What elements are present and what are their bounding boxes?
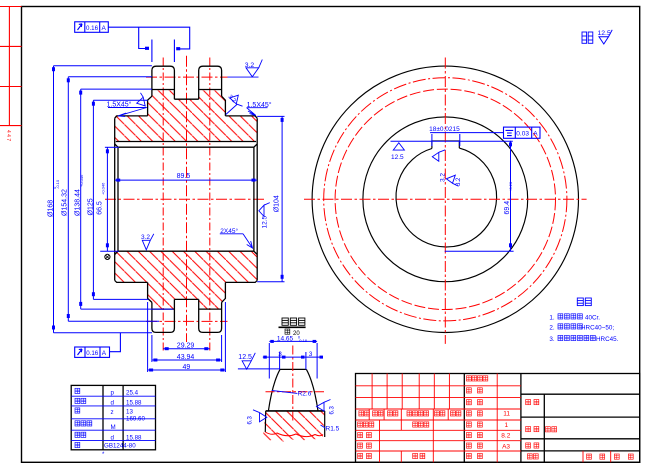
svg-text:8.2: 8.2 (501, 432, 510, 439)
svg-text:-0.18: -0.18 (298, 338, 308, 343)
svg-text:43.94: 43.94 (177, 354, 195, 361)
svg-text:3: 3 (309, 351, 313, 358)
svg-text:11: 11 (503, 411, 510, 418)
svg-text:169.60: 169.60 (126, 416, 145, 423)
svg-text:40Cr.: 40Cr. (585, 314, 600, 321)
svg-text:3.2: 3.2 (141, 234, 150, 241)
svg-text:A: A (533, 131, 538, 138)
svg-text:-0.10: -0.10 (55, 179, 60, 189)
svg-text:25.4: 25.4 (126, 389, 139, 396)
svg-text:A3: A3 (502, 443, 510, 450)
svg-text:0.16: 0.16 (86, 350, 99, 357)
svg-text:12.5: 12.5 (262, 215, 269, 228)
svg-text:d: d (111, 435, 115, 442)
svg-text:66.5: 66.5 (97, 201, 104, 215)
svg-text:14.65: 14.65 (277, 335, 294, 342)
svg-text:15.88: 15.88 (126, 435, 142, 442)
svg-text:Ø154.32: Ø154.32 (62, 189, 69, 216)
svg-text:A: A (102, 25, 107, 32)
svg-text:d: d (111, 400, 115, 407)
svg-text:Ø125: Ø125 (88, 198, 95, 215)
svg-text:3.: 3. (549, 336, 555, 343)
svg-text:1: 1 (505, 422, 509, 429)
svg-text:0.03: 0.03 (516, 131, 529, 138)
svg-text:R2.6: R2.6 (298, 390, 312, 397)
svg-text:13: 13 (126, 409, 133, 416)
svg-text:6.3: 6.3 (248, 415, 254, 424)
svg-text:15.88: 15.88 (126, 400, 142, 407)
svg-text:18±0.0215: 18±0.0215 (429, 126, 460, 133)
svg-text:GB1244-80: GB1244-80 (104, 443, 136, 450)
svg-text:89.5: 89.5 (177, 173, 191, 180)
svg-text:R1.5: R1.5 (326, 425, 340, 432)
svg-text:3: 3 (278, 351, 282, 358)
svg-text:12.5: 12.5 (391, 154, 404, 161)
svg-text:2.: 2. (549, 324, 555, 331)
svg-text:M: M (111, 424, 116, 431)
svg-text:Ø138.44: Ø138.44 (75, 189, 82, 216)
svg-text:Ø104: Ø104 (274, 195, 281, 212)
svg-text:29.29: 29.29 (177, 343, 195, 350)
svg-text:HRC40~50;: HRC40~50; (581, 324, 614, 331)
svg-text:0.16: 0.16 (86, 25, 99, 32)
svg-text:12.5: 12.5 (238, 354, 252, 361)
svg-text:3.2: 3.2 (440, 173, 447, 182)
svg-text:1.: 1. (549, 314, 555, 321)
svg-text:4 4 7: 4 4 7 (5, 130, 11, 141)
svg-text:69.4: 69.4 (504, 201, 511, 215)
svg-text:20: 20 (293, 331, 300, 337)
svg-text:Ø168: Ø168 (48, 200, 55, 217)
svg-text:A: A (102, 350, 107, 357)
svg-text:p: p (111, 389, 115, 396)
svg-text:6.3: 6.3 (330, 405, 336, 414)
svg-text:+0.046: +0.046 (101, 182, 106, 195)
svg-text:3.2: 3.2 (245, 62, 255, 69)
svg-text:3.2: 3.2 (456, 177, 462, 186)
svg-text:+0.20: +0.20 (508, 181, 513, 192)
svg-text:HRC45.: HRC45. (596, 336, 619, 343)
svg-text:49: 49 (183, 364, 191, 371)
svg-text:+0.046: +0.046 (79, 174, 84, 187)
svg-text:z: z (111, 409, 114, 416)
